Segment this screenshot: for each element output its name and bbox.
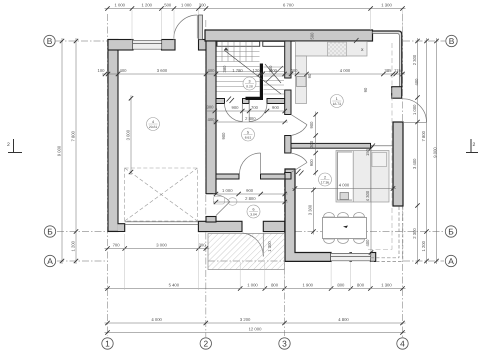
svg-text:3 200: 3 200 (240, 317, 251, 322)
svg-text:2: 2 (473, 142, 476, 148)
island counter C shape (338, 152, 353, 200)
svg-text:300: 300 (199, 3, 207, 8)
svg-text:8.28: 8.28 (246, 84, 253, 88)
axis Bb horizontal mid-right (295, 231, 444, 233)
bottom windows sill lines (331, 253, 370, 261)
svg-text:1: 1 (105, 339, 110, 349)
svg-text:1 000: 1 000 (412, 104, 417, 115)
svg-text:3: 3 (282, 339, 287, 349)
hall / living partition wall (285, 41, 291, 179)
bottom wall window mullion (350, 253, 352, 262)
room1 north wall (216, 174, 285, 179)
dim dining 3300 vertical (313, 187, 315, 235)
right wall pier above door (392, 87, 402, 99)
svg-text:120: 120 (253, 68, 261, 73)
svg-text:1: 1 (336, 97, 338, 101)
svg-text:17.36: 17.36 (321, 180, 329, 184)
svg-text:2 800: 2 800 (245, 116, 256, 121)
axis B horizontal left (56, 40, 108, 42)
dim left outer 9000 (61, 38, 63, 264)
svg-text:400: 400 (365, 239, 370, 247)
wc fixtures room1 (214, 197, 238, 206)
svg-text:1 000: 1 000 (222, 188, 233, 193)
svg-text:1 200: 1 200 (70, 240, 75, 251)
terrace dashed boundary (371, 207, 403, 262)
door arc living B (291, 153, 307, 173)
table item (343, 226, 348, 229)
svg-text:100: 100 (98, 68, 106, 73)
room label circle wc (247, 205, 260, 218)
left exterior wall (108, 40, 118, 232)
svg-text:900: 900 (246, 188, 254, 193)
door arc bottom entrance (242, 233, 263, 257)
svg-text:150: 150 (365, 148, 370, 156)
island fridge (372, 153, 387, 167)
garage door threshold lines (125, 222, 199, 225)
svg-text:800: 800 (357, 283, 365, 288)
svg-text:А: А (47, 256, 53, 266)
dim top row1 (105, 8, 406, 10)
svg-text:1 300: 1 300 (381, 3, 392, 8)
garage top wall corner block (108, 40, 133, 51)
svg-text:1 200: 1 200 (142, 3, 153, 8)
svg-text:Б: Б (448, 227, 454, 237)
grid circle labels (47, 36, 455, 349)
svg-text:1 780: 1 780 (232, 68, 243, 73)
garage top wall pier (162, 40, 176, 51)
dim garage 3000 vertical (130, 95, 132, 175)
svg-text:9 000: 9 000 (56, 145, 61, 156)
top-right thin corner glazed wall (373, 31, 402, 87)
dim right 9000 (436, 38, 438, 264)
svg-text:400: 400 (291, 68, 299, 73)
axis Bb horizontal left (57, 231, 108, 233)
door arc hall top left (225, 104, 243, 122)
axis 3 vertical (284, 180, 286, 336)
svg-text:4 000: 4 000 (340, 68, 351, 73)
dim kitchen 4000 (292, 188, 396, 190)
svg-text:400: 400 (120, 68, 128, 73)
dim left inner 7800/1200 (75, 38, 77, 264)
stair hall bottom wall (216, 99, 285, 104)
break marks (227, 38, 376, 176)
svg-text:3 000: 3 000 (125, 129, 130, 140)
kitchen left counter (296, 56, 307, 104)
svg-text:800: 800 (337, 283, 345, 288)
kitchen dining divider wall (291, 143, 371, 148)
dim bottom row1 garage (105, 248, 209, 250)
grid circle B left (44, 35, 457, 349)
svg-text:300: 300 (199, 243, 207, 248)
garage+hall bottom wall band (198, 221, 242, 231)
axis 4 vertical (402, 14, 404, 337)
svg-text:1 300: 1 300 (267, 241, 272, 252)
svg-text:90: 90 (363, 87, 368, 92)
svg-text:900: 900 (221, 132, 226, 140)
svg-text:В: В (47, 36, 53, 46)
svg-text:500: 500 (310, 32, 315, 40)
svg-text:6.61: 6.61 (245, 135, 252, 139)
svg-text:380: 380 (222, 65, 227, 73)
svg-text:4 000: 4 000 (339, 183, 350, 188)
dim right chain 2300/1000/3400/2300 (417, 38, 419, 265)
dim living doors vertical (315, 112, 317, 176)
svg-text:400: 400 (208, 68, 216, 73)
svg-text:400: 400 (208, 117, 216, 122)
svg-text:3.04: 3.04 (250, 212, 257, 216)
island sink (340, 193, 349, 200)
stair direction arrows (224, 47, 283, 94)
svg-text:900: 900 (232, 105, 240, 110)
garage top window lines (133, 40, 162, 49)
svg-text:300: 300 (309, 140, 314, 148)
svg-text:В: В (449, 36, 455, 46)
svg-text:1 000: 1 000 (247, 283, 258, 288)
main bottom wall solid part (285, 169, 331, 261)
svg-text:90: 90 (307, 73, 312, 78)
room label circle hall (242, 128, 255, 141)
svg-text:2 800: 2 800 (245, 196, 256, 201)
dim bottom row2 (105, 288, 406, 290)
svg-text:4 800: 4 800 (338, 317, 349, 322)
door arc top entrance (174, 15, 198, 39)
dim top extension lines (131, 10, 133, 40)
dim room1 row (213, 193, 288, 195)
svg-text:500: 500 (164, 3, 172, 8)
svg-text:2: 2 (324, 175, 326, 179)
dim hall 2800 (213, 121, 288, 123)
dim interior row y74 (102, 73, 405, 75)
svg-text:2 300: 2 300 (412, 228, 417, 239)
porch stub wall top (199, 15, 203, 40)
garage gate dashed X (125, 168, 198, 221)
axis 1 vertical (107, 14, 109, 336)
room label circle dining (319, 173, 332, 186)
door arc living A (291, 115, 307, 136)
dining table (323, 218, 367, 239)
room label circle living (330, 95, 343, 108)
island divider (353, 151, 355, 202)
svg-text:3 400: 3 400 (412, 158, 417, 169)
door arc room1 to garage (216, 195, 230, 216)
svg-text:4: 4 (152, 120, 154, 124)
axis 2 vertical (205, 20, 207, 337)
dim bottom extension lines (124, 234, 126, 290)
chairs top row (324, 213, 365, 218)
svg-text:800: 800 (271, 283, 279, 288)
door arc hall top right (249, 104, 267, 122)
svg-text:2: 2 (203, 339, 208, 349)
stair top landing boxes (217, 41, 285, 46)
svg-text:900: 900 (309, 121, 314, 129)
svg-text:20.81: 20.81 (149, 125, 157, 129)
svg-text:6 700: 6 700 (283, 3, 294, 8)
hall bottom wall right of door (263, 221, 284, 231)
svg-text:Б: Б (47, 227, 53, 237)
svg-text:3 000: 3 000 (156, 243, 167, 248)
svg-text:300: 300 (207, 105, 215, 110)
dim hall top row (207, 110, 285, 112)
svg-text:3 600: 3 600 (157, 68, 168, 73)
svg-text:6: 6 (253, 207, 255, 211)
porch hatched (208, 234, 285, 270)
svg-text:1 000: 1 000 (181, 3, 192, 8)
walls group (108, 15, 403, 261)
section marker left (8, 139, 22, 153)
axis A horizontal through porch (208, 260, 285, 262)
svg-text:3: 3 (249, 79, 251, 83)
svg-text:400: 400 (414, 78, 419, 86)
svg-text:1 000: 1 000 (115, 3, 126, 8)
dim bottom row4 (105, 332, 406, 334)
kitchen island block (336, 151, 389, 203)
svg-text:2 300: 2 300 (412, 54, 417, 65)
chairs bottom row (324, 239, 365, 244)
svg-text:1 900: 1 900 (303, 283, 314, 288)
roof overhang dashed (368, 43, 392, 250)
stove (328, 42, 347, 56)
dim right 7800/1200 (426, 38, 428, 264)
right exterior wall solid (393, 122, 403, 206)
axis B horizontal right (403, 40, 445, 42)
axis A horizontal right (403, 260, 444, 262)
svg-text:9 000: 9 000 (432, 147, 437, 158)
bottom wall corner pier right (370, 253, 375, 262)
svg-text:12 000: 12 000 (249, 327, 262, 332)
stairs (217, 42, 285, 94)
svg-text:4 000: 4 000 (151, 317, 162, 322)
svg-text:115: 115 (394, 68, 401, 73)
room label circle garage (147, 118, 160, 131)
garage bottom wall left L-block foot (118, 224, 125, 232)
svg-text:900: 900 (272, 105, 280, 110)
svg-text:7 800: 7 800 (70, 130, 75, 141)
svg-text:900: 900 (309, 159, 314, 167)
svg-text:А: А (448, 256, 454, 266)
section marker right (466, 139, 478, 153)
svg-text:385: 385 (385, 68, 393, 73)
dim dining right 4300 vertical (370, 145, 372, 255)
main top wall (205, 30, 373, 41)
svg-text:1 300: 1 300 (381, 283, 392, 288)
svg-text:4 300: 4 300 (365, 190, 370, 201)
svg-text:300: 300 (268, 65, 273, 73)
garage top door hinge pier (199, 40, 207, 51)
svg-text:5 400: 5 400 (169, 283, 180, 288)
svg-text:700: 700 (113, 243, 121, 248)
dim bottom row3 (105, 322, 406, 324)
svg-text:7 800: 7 800 (421, 130, 426, 141)
room label circle stair hall (243, 77, 256, 90)
door arc room1 (240, 153, 261, 174)
svg-text:700: 700 (251, 105, 259, 110)
svg-text:2: 2 (7, 142, 10, 148)
door arc right exterior (403, 99, 427, 123)
svg-text:1 200: 1 200 (421, 240, 426, 251)
garage right wall / stair hall left wall (206, 41, 216, 194)
dim room1 2800 (213, 201, 288, 203)
kitchen top counter (296, 42, 368, 57)
svg-text:3 300: 3 300 (308, 204, 313, 215)
svg-text:18.73: 18.73 (333, 102, 341, 106)
grid axis lines (56, 14, 445, 337)
svg-text:5: 5 (247, 130, 249, 134)
axis A horizontal left (57, 260, 108, 262)
svg-text:4: 4 (400, 339, 405, 349)
stair stringer wall (246, 64, 264, 101)
kitchen sink left (297, 77, 307, 87)
